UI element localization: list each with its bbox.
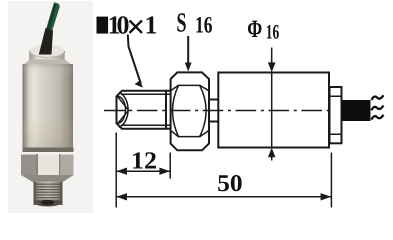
sensor photo hex highlight bbox=[21, 152, 74, 155]
svg-text:16: 16 bbox=[266, 22, 280, 44]
photo background bbox=[8, 1, 93, 213]
neck between nut and body bbox=[209, 100, 218, 122]
svg-text:16: 16 bbox=[195, 12, 213, 38]
phi16 upper arrow tail bbox=[271, 48, 273, 67]
leader M10x1 bbox=[128, 35, 141, 84]
stud tip outer arc bbox=[119, 92, 128, 127]
sensor photo green cable shading bbox=[47, 4, 57, 32]
sensor photo shoulder bbox=[23, 60, 74, 69]
svg-text:S: S bbox=[177, 7, 187, 38]
sensor photo main body bbox=[23, 64, 74, 149]
leader S16 arrowhead bbox=[185, 63, 192, 72]
connector ridge divisions bbox=[330, 96, 342, 134]
svg-text:Φ: Φ bbox=[247, 16, 262, 43]
dim 12 left extension line bbox=[115, 133, 117, 208]
sensor photo stud bottom hole bbox=[41, 200, 54, 206]
leader S16 line bbox=[187, 36, 189, 66]
dim 12 right arrowhead bbox=[159, 168, 170, 175]
centerline bbox=[104, 110, 330, 112]
sensor photo body vertical shading bbox=[23, 64, 74, 149]
label M10x1 block M bbox=[97, 17, 109, 34]
sensor photo green cable bbox=[46, 2, 60, 33]
dim 50 line bbox=[116, 196, 331, 198]
stud tip inner arc bbox=[118, 96, 126, 123]
connector ridges strip bbox=[330, 87, 342, 143]
hex nut outline bbox=[171, 72, 209, 150]
sensor photo cable gland bbox=[39, 28, 53, 55]
cable squiggle top bbox=[372, 95, 384, 100]
stud thread minor lines bbox=[121, 94, 171, 125]
sensor photo hex nut mid facet bbox=[37, 152, 60, 175]
dim 50 left arrowhead bbox=[116, 193, 127, 200]
hex nut face arcs bbox=[173, 85, 207, 136]
sensor photo cap top face bbox=[29, 44, 64, 57]
phi16 lower arrowhead bbox=[268, 148, 276, 158]
cable black bbox=[342, 100, 371, 121]
svg-text:1: 1 bbox=[145, 11, 158, 40]
sensor photo hex facet lines bbox=[37, 154, 38, 175]
main body outline bbox=[218, 73, 329, 148]
sensor photo groove bbox=[23, 148, 74, 153]
hex nut chamfer bottom bbox=[171, 130, 209, 136]
phi16 dimension line through body bbox=[271, 73, 273, 148]
sensor photo cap top face rim bbox=[29, 51, 64, 58]
dim 12 right extension line bbox=[169, 153, 171, 179]
phi16 upper arrowhead bbox=[268, 62, 276, 72]
shank between stud and nut bbox=[166, 91, 171, 129]
phi16 lower arrow tail bbox=[271, 153, 273, 161]
dim 12 line bbox=[116, 170, 170, 172]
sensor photo stud side shadows bbox=[34, 182, 36, 205]
sensor photo thread ridges bbox=[34, 184, 63, 202]
stud tip cone diagonals bbox=[117, 96, 129, 125]
leader M10x1 arrowhead bbox=[135, 80, 143, 87]
sensor photo hex nut right facet bbox=[60, 152, 74, 175]
sensor photo hex-stud taper bbox=[21, 175, 74, 183]
hex nut chamfer top bbox=[171, 85, 209, 90]
dim 12 left arrowhead bbox=[116, 168, 127, 175]
dim 50 right arrowhead bbox=[321, 193, 332, 200]
sensor photo cap side bbox=[29, 51, 64, 60]
dim 50 right extension line bbox=[330, 153, 332, 208]
sensor photo hex nut left facet bbox=[21, 152, 37, 175]
shank vertical bbox=[165, 91, 167, 129]
sensor photo threaded stud bbox=[34, 182, 63, 206]
stud outline bbox=[117, 91, 167, 129]
svg-text:50: 50 bbox=[217, 171, 243, 197]
cable squiggle middle bbox=[372, 106, 384, 111]
cable squiggle bottom bbox=[372, 115, 384, 120]
sensor photo stud bottom face bbox=[34, 201, 63, 207]
